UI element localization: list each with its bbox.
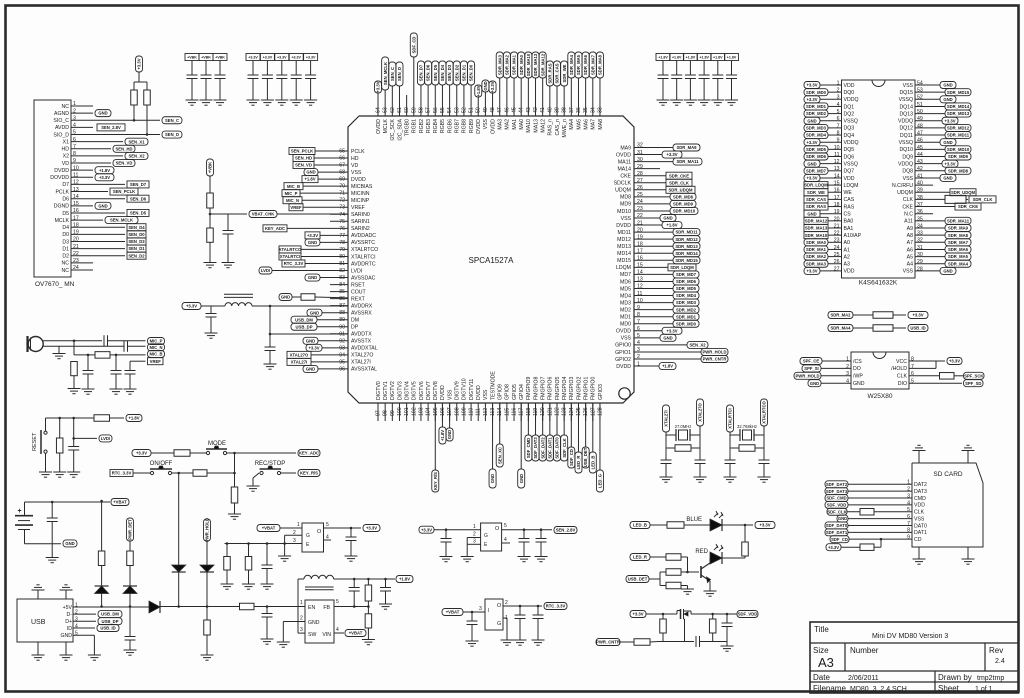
svg-text:A1: A1 (844, 247, 850, 253)
svg-text:A9: A9 (907, 226, 913, 232)
svg-text:DVDD: DVDD (351, 177, 366, 183)
svg-text:CLK: CLK (914, 510, 925, 516)
svg-text:RTC_3.3V: RTC_3.3V (112, 471, 132, 476)
svg-text:MIC_P: MIC_P (150, 339, 163, 344)
svg-text:MD1: MD1 (620, 315, 631, 321)
svg-text:DQ6: DQ6 (844, 154, 855, 160)
svg-text:DVDD: DVDD (616, 364, 631, 370)
svg-text:DIGTV2: DIGTV2 (390, 381, 396, 400)
svg-text:DQ2: DQ2 (844, 111, 855, 117)
svg-text:1: 1 (300, 600, 303, 606)
svg-text:CD: CD (914, 537, 922, 543)
svg-text:SDR_MD0: SDR_MD0 (676, 321, 697, 326)
svg-text:AVDDRTC: AVDDRTC (351, 261, 376, 267)
svg-text:3: 3 (846, 371, 849, 377)
svg-text:DIGTV3: DIGTV3 (397, 381, 403, 400)
svg-text:SDR_MA2: SDR_MA2 (504, 54, 509, 75)
svg-text:SDR_LDQM: SDR_LDQM (804, 183, 828, 188)
svg-text:SEN_X2: SEN_X2 (689, 343, 706, 348)
svg-text:A7: A7 (907, 240, 913, 246)
svg-text:HD: HD (62, 147, 70, 153)
svg-text:VBAT_CHK: VBAT_CHK (252, 212, 275, 217)
svg-text:SDR_WE: SDR_WE (562, 64, 567, 82)
svg-text:SEN_D2: SEN_D2 (454, 64, 459, 81)
svg-text:+3.3V: +3.3V (421, 527, 432, 532)
svg-text:GND: GND (310, 310, 319, 315)
svg-text:D3: D3 (62, 239, 69, 245)
svg-text:+3.3V: +3.3V (263, 56, 273, 60)
svg-text:MD15: MD15 (617, 258, 631, 264)
svg-text:FMGPIO7: FMGPIO7 (540, 377, 546, 400)
svg-text:GND: GND (98, 111, 107, 116)
svg-text:LVDI: LVDI (351, 268, 362, 274)
svg-text:SEN_D7: SEN_D7 (419, 64, 424, 81)
svg-text:48: 48 (917, 123, 923, 129)
svg-text:2: 2 (293, 530, 296, 536)
svg-text:SEN_C: SEN_C (390, 67, 395, 81)
svg-text:FMGPIO5: FMGPIO5 (555, 377, 561, 400)
svg-text:SDR_UDQM: SDR_UDQM (669, 187, 693, 192)
svg-text:GND: GND (943, 176, 952, 181)
svg-text:MA3: MA3 (498, 119, 504, 130)
svg-text:DQ9: DQ9 (902, 154, 913, 160)
svg-text:DAT1: DAT1 (914, 530, 927, 536)
svg-text:Drawn by: Drawn by (938, 673, 972, 682)
svg-text:I2C_SDA: I2C_SDA (397, 118, 403, 140)
svg-text:3: 3 (473, 539, 476, 545)
svg-text:SDR_MA9: SDR_MA9 (948, 226, 969, 231)
svg-text:WE: WE (844, 190, 853, 196)
svg-text:AVDDRX: AVDDRX (351, 303, 373, 309)
svg-text:FMGPIO1: FMGPIO1 (583, 377, 589, 400)
svg-text:N.C: N.C (904, 212, 913, 218)
svg-text:SDR_RAS: SDR_RAS (547, 63, 552, 83)
svg-text:4: 4 (336, 627, 339, 633)
svg-text:G: G (497, 621, 501, 627)
svg-text:SDR_MA8: SDR_MA8 (948, 233, 969, 238)
svg-text:DIGTV6: DIGTV6 (419, 381, 425, 400)
svg-text:SDF_DAT3: SDF_DAT3 (533, 437, 538, 459)
svg-text:XTALRTCI: XTALRTCI (351, 254, 376, 260)
svg-text:SEN_HD: SEN_HD (295, 156, 312, 161)
svg-text:4: 4 (504, 537, 507, 543)
svg-text:MA5: MA5 (576, 119, 582, 130)
svg-text:DAT0: DAT0 (914, 523, 927, 529)
svg-text:GPIO1: GPIO1 (615, 350, 631, 356)
svg-text:DIGTV7: DIGTV7 (426, 381, 432, 400)
svg-text:CKE: CKE (620, 174, 631, 180)
svg-text:SDR_MD8: SDR_MD8 (673, 194, 694, 199)
svg-text:KEY_R/S: KEY_R/S (300, 471, 318, 476)
svg-text:Mini DV MD80 Version 3: Mini DV MD80 Version 3 (872, 633, 948, 640)
svg-text:2/06/2011: 2/06/2011 (848, 675, 879, 682)
svg-text:XTALRTCO: XTALRTCO (762, 401, 767, 424)
svg-text:CAS_n: CAS_n (555, 119, 561, 136)
svg-text:+3.3V: +3.3V (291, 56, 301, 60)
svg-text:MD6: MD6 (620, 279, 631, 285)
svg-text:LDQM: LDQM (616, 265, 631, 271)
svg-text:DQ14: DQ14 (899, 104, 913, 110)
svg-text:TRGB0: TRGB0 (404, 119, 410, 136)
svg-text:MA11: MA11 (618, 159, 631, 165)
svg-text:+VBAT: +VBAT (349, 631, 363, 636)
svg-text:SEN_D4: SEN_D4 (128, 225, 145, 230)
svg-text:SW: SW (308, 632, 316, 638)
svg-text:TESTMODE: TESTMODE (490, 371, 496, 400)
svg-text:GND: GND (308, 275, 317, 280)
svg-text:SDF_DAT3: SDF_DAT3 (826, 489, 848, 494)
svg-text:OVDD: OVDD (616, 152, 631, 158)
svg-text:LDQM: LDQM (844, 183, 859, 189)
svg-text:D0: D0 (62, 232, 69, 238)
svg-text:W25X80: W25X80 (868, 393, 893, 400)
svg-text:DQ11: DQ11 (900, 133, 913, 139)
svg-text:SPF_SD: SPF_SD (965, 381, 981, 386)
svg-text:SEN_2.8V: SEN_2.8V (101, 125, 121, 130)
svg-text:GND: GND (663, 335, 672, 340)
svg-text:LED_R: LED_R (633, 555, 647, 560)
svg-text:MIC_N: MIC_N (149, 345, 162, 350)
svg-text:SDR_UDQM: SDR_UDQM (951, 190, 975, 195)
svg-text:DO: DO (853, 366, 861, 372)
svg-text:GND: GND (838, 516, 847, 521)
svg-text:A4: A4 (907, 262, 913, 268)
svg-text:+3.3V: +3.3V (366, 526, 377, 531)
svg-text:CS: CS (844, 212, 852, 218)
svg-text:SDR_MA5: SDR_MA5 (948, 254, 969, 259)
svg-text:GPIO2: GPIO2 (615, 357, 631, 363)
svg-text:MD7: MD7 (620, 272, 631, 278)
svg-text:A3: A3 (818, 655, 834, 670)
svg-text:Filename: Filename (813, 684, 846, 693)
svg-text:SDR_CAS: SDR_CAS (555, 63, 560, 83)
svg-text:7: 7 (837, 123, 840, 129)
svg-text:MD13: MD13 (617, 244, 631, 250)
svg-text:DQ3: DQ3 (844, 126, 855, 132)
svg-text:AVSSRTC: AVSSRTC (351, 240, 375, 246)
svg-text:GND: GND (943, 97, 952, 102)
svg-text:USB_DP: USB_DP (102, 619, 119, 624)
svg-text:O: O (317, 529, 322, 535)
svg-text:+3.3V: +3.3V (99, 175, 110, 180)
svg-text:SDF_DAT2: SDF_DAT2 (540, 437, 545, 459)
svg-text:SDR_MD9: SDR_MD9 (673, 202, 694, 207)
svg-text:DAT3: DAT3 (914, 489, 927, 495)
svg-text:DVDD: DVDD (476, 119, 482, 134)
svg-text:SDR_MA11: SDR_MA11 (676, 159, 699, 164)
svg-text:SDR_MD12: SDR_MD12 (947, 126, 970, 131)
svg-text:AVDDADC: AVDDADC (351, 233, 376, 239)
svg-text:+VBAT: +VBAT (113, 500, 127, 505)
svg-text:MIC_P: MIC_P (285, 191, 298, 196)
svg-text:GND: GND (447, 430, 452, 439)
svg-text:LED_R: LED_R (576, 456, 581, 470)
svg-text:SDF_DAT2: SDF_DAT2 (826, 482, 848, 487)
svg-text:SDR_MA3: SDR_MA3 (497, 54, 502, 75)
svg-text:+1.8V: +1.8V (699, 56, 709, 60)
svg-text:+3.3V: +3.3V (759, 523, 770, 528)
svg-text:SDR_MD11: SDR_MD11 (675, 230, 698, 235)
svg-text:AGND: AGND (54, 111, 69, 117)
svg-text:USB_DET: USB_DET (628, 577, 648, 582)
svg-text:KEY_R/S: KEY_R/S (433, 472, 438, 490)
svg-text:DIGTV8: DIGTV8 (433, 381, 439, 400)
svg-text:VDDQ: VDDQ (844, 140, 859, 146)
svg-text:MA0: MA0 (519, 119, 525, 130)
svg-text:G: G (484, 533, 488, 539)
svg-text:D7: D7 (62, 182, 69, 188)
svg-text:MD0: MD0 (620, 322, 631, 328)
svg-text:4: 4 (75, 624, 78, 630)
svg-text:SDF_CMD: SDF_CMD (526, 438, 531, 458)
svg-text:COUT: COUT (351, 289, 367, 295)
svg-text:+1.8V: +1.8V (304, 177, 315, 182)
svg-text:VD: VD (62, 161, 69, 167)
svg-text:DIGTV0: DIGTV0 (376, 381, 382, 400)
svg-text:RTC_3.3V: RTC_3.3V (546, 604, 566, 609)
svg-text:+3.3V: +3.3V (248, 56, 258, 60)
svg-text:SDR_MA10: SDR_MA10 (526, 53, 531, 76)
svg-text:AVSSXTAL: AVSSXTAL (351, 367, 377, 373)
svg-text:1 of 1: 1 of 1 (975, 686, 993, 693)
svg-text:SDR_MD15: SDR_MD15 (947, 90, 970, 95)
svg-text:VIN: VIN (322, 632, 331, 638)
svg-text:+3.3V: +3.3V (490, 81, 495, 92)
svg-text:MA13: MA13 (533, 119, 539, 133)
svg-text:+3.3V: +3.3V (137, 58, 142, 69)
svg-text:SDR_MD0: SDR_MD0 (806, 90, 827, 95)
svg-text:MA7: MA7 (591, 119, 597, 130)
svg-text:MA1: MA1 (512, 119, 518, 130)
svg-text:MA14: MA14 (617, 166, 631, 172)
svg-text:PWR_HOLD: PWR_HOLD (703, 350, 727, 355)
svg-text:DQ13: DQ13 (899, 111, 913, 117)
svg-text:SDR_MA6: SDR_MA6 (948, 247, 969, 252)
svg-text:2: 2 (300, 616, 303, 622)
svg-text:SEN_HD: SEN_HD (116, 146, 133, 151)
svg-text:PWR_CNTR: PWR_CNTR (703, 357, 727, 362)
svg-text:VSS: VSS (351, 170, 362, 176)
svg-text:+3.3V: +3.3V (949, 359, 960, 364)
svg-text:AVSSRX: AVSSRX (351, 310, 372, 316)
svg-text:GND: GND (853, 381, 865, 387)
svg-text:GND: GND (943, 83, 952, 88)
svg-text:MA8: MA8 (598, 119, 604, 130)
svg-text:SDR_MA1: SDR_MA1 (512, 54, 517, 75)
svg-text:+VBK: +VBK (187, 56, 197, 60)
svg-text:SEN_D5: SEN_D5 (130, 211, 147, 216)
svg-text:XTAL27I: XTAL27I (664, 410, 669, 426)
svg-text:DQ10: DQ10 (899, 147, 913, 153)
svg-text:LED_G: LED_G (598, 474, 603, 488)
svg-text:SPF_CE: SPF_CE (803, 359, 819, 364)
svg-text:SEN_D: SEN_D (397, 67, 402, 81)
svg-text:VSS: VSS (621, 336, 632, 342)
svg-text:SDR_MA4: SDR_MA4 (830, 326, 851, 331)
svg-text:RGB6: RGB6 (447, 119, 453, 133)
svg-text:Title: Title (814, 625, 829, 634)
svg-text:MA10: MA10 (526, 119, 532, 133)
svg-text:41: 41 (917, 173, 923, 179)
svg-text:+5V: +5V (63, 605, 73, 611)
svg-text:SDF_VDD: SDF_VDD (827, 502, 847, 507)
svg-text:SDR_MD10: SDR_MD10 (673, 209, 696, 214)
svg-text:SEN_D6: SEN_D6 (130, 196, 147, 201)
svg-text:+VBAT: +VBAT (262, 526, 276, 531)
svg-text:FMGPIO8: FMGPIO8 (533, 377, 539, 400)
svg-text:+1.8V: +1.8V (440, 430, 445, 441)
svg-text:AVSSTX: AVSSTX (351, 339, 372, 345)
svg-text:+3.3V: +3.3V (828, 545, 839, 550)
svg-text:FMGPIO3: FMGPIO3 (569, 377, 575, 400)
svg-text:MIC_N: MIC_N (286, 198, 299, 203)
svg-text:14: 14 (834, 173, 840, 179)
svg-text:GND: GND (60, 633, 72, 639)
svg-text:A11: A11 (904, 219, 913, 225)
svg-text:DQ15: DQ15 (899, 90, 913, 96)
svg-text:+3.3V: +3.3V (806, 97, 817, 102)
svg-text:REC/STOP: REC/STOP (255, 461, 286, 467)
svg-text:SDR_MD6: SDR_MD6 (806, 154, 827, 159)
svg-text:MICBIAS: MICBIAS (351, 184, 373, 190)
svg-text:SDF_CD: SDF_CD (831, 537, 848, 542)
svg-text:RGB3: RGB3 (426, 119, 432, 133)
svg-text:MA4: MA4 (569, 119, 575, 130)
svg-text:VDDQ: VDDQ (844, 97, 859, 103)
svg-text:SDF_CLK: SDF_CLK (827, 509, 846, 514)
svg-text:1: 1 (297, 522, 300, 528)
svg-text:SPF_SCK: SPF_SCK (964, 373, 983, 378)
svg-text:USB: USB (31, 619, 46, 626)
svg-text:SDR_MA13: SDR_MA13 (805, 226, 828, 231)
svg-text:+3.3V: +3.3V (912, 313, 923, 318)
svg-text:GND: GND (308, 620, 320, 626)
svg-text:DVDD: DVDD (440, 385, 446, 400)
svg-text:+1.8V: +1.8V (666, 223, 677, 228)
svg-text:GND: GND (943, 140, 952, 145)
svg-text:3: 3 (293, 538, 296, 544)
svg-text:SARIN1: SARIN1 (351, 219, 370, 225)
svg-text:DIGTV11: DIGTV11 (469, 379, 475, 400)
svg-text:RAS_n: RAS_n (548, 119, 554, 136)
svg-text:XTAL27O: XTAL27O (290, 352, 309, 357)
svg-text:XTALRTCI: XTALRTCI (728, 408, 733, 428)
svg-text:XTALRTCI: XTALRTCI (280, 254, 300, 259)
svg-text:BA0: BA0 (844, 219, 854, 225)
svg-text:GND: GND (807, 118, 816, 123)
svg-text:MICINP: MICINP (351, 198, 370, 204)
svg-text:Rev: Rev (989, 646, 1003, 655)
svg-text:SDR_MA13: SDR_MA13 (533, 53, 538, 76)
svg-text:MD3: MD3 (620, 300, 631, 306)
svg-text:+3.3V: +3.3V (666, 328, 677, 333)
svg-text:SEN_D0: SEN_D0 (128, 232, 145, 237)
svg-text:SEN_D7: SEN_D7 (130, 182, 147, 187)
svg-text:5: 5 (326, 522, 329, 528)
svg-text:SPF_SI: SPF_SI (804, 366, 818, 371)
svg-text:BLUE: BLUE (686, 517, 702, 523)
svg-text:Number: Number (850, 646, 879, 655)
svg-text:SDF_VDD: SDF_VDD (738, 612, 758, 617)
svg-text:DM: DM (351, 318, 359, 324)
svg-text:+3.3V: +3.3V (307, 233, 318, 238)
svg-text:SDR_MD15: SDR_MD15 (675, 258, 698, 263)
svg-text:+VBK: +VBK (208, 162, 213, 173)
svg-text:SEN_D1: SEN_D1 (462, 64, 467, 81)
svg-text:GPIO0: GPIO0 (615, 343, 631, 349)
svg-text:O: O (497, 603, 502, 609)
svg-text:O: O (495, 526, 500, 532)
svg-text:+VBAT: +VBAT (446, 610, 460, 615)
svg-text:XTAL27O: XTAL27O (351, 353, 373, 359)
svg-text:VREF: VREF (150, 359, 162, 364)
svg-text:GPIO9: GPIO9 (498, 384, 504, 400)
svg-text:SDR_CKE: SDR_CKE (958, 204, 978, 209)
svg-text:+3.3V: +3.3V (806, 140, 817, 145)
svg-text:SDR_MA4: SDR_MA4 (569, 54, 574, 75)
svg-text:CMD: CMD (914, 496, 926, 502)
svg-text:VDDQ: VDDQ (898, 161, 913, 167)
svg-text:32.768kHz: 32.768kHz (737, 424, 757, 429)
svg-text:A6: A6 (907, 247, 913, 253)
svg-text:MCLK: MCLK (55, 218, 70, 224)
svg-text:+3.3V: +3.3V (944, 161, 955, 166)
svg-text:MD5: MD5 (620, 286, 631, 292)
svg-text:A5: A5 (907, 254, 913, 260)
svg-text:D5: D5 (62, 211, 69, 217)
svg-text:SDR_MA7: SDR_MA7 (590, 54, 595, 75)
svg-text:DIGTV4: DIGTV4 (404, 381, 410, 400)
svg-text:4: 4 (326, 535, 329, 541)
svg-text:GND: GND (519, 474, 524, 483)
svg-text:MD9: MD9 (620, 202, 631, 208)
svg-text:VREF: VREF (351, 205, 365, 211)
svg-text:DQ8: DQ8 (902, 169, 913, 175)
svg-text:22: 22 (834, 231, 840, 237)
svg-text:SDR_MA1: SDR_MA1 (806, 247, 827, 252)
svg-text:SDR_MD5: SDR_MD5 (676, 286, 697, 291)
svg-text:+3.3V: +3.3V (806, 176, 817, 181)
svg-text:SDR_CLK: SDR_CLK (973, 197, 993, 202)
svg-text:DQ5: DQ5 (844, 147, 855, 153)
svg-text:+3.3V: +3.3V (277, 56, 287, 60)
svg-text:SEN_PCLK: SEN_PCLK (113, 189, 135, 194)
svg-text:SDR_MD13: SDR_MD13 (947, 111, 970, 116)
svg-text:+3.3V: +3.3V (666, 152, 677, 157)
svg-text:VDDQ: VDDQ (898, 119, 913, 125)
svg-text:SDR_MA8: SDR_MA8 (598, 54, 603, 75)
svg-text:FMGPIO2: FMGPIO2 (576, 377, 582, 400)
svg-text:CLK: CLK (897, 374, 908, 380)
svg-text:SDR_RAS: SDR_RAS (806, 204, 826, 209)
svg-text:VSSQ: VSSQ (844, 161, 858, 167)
svg-text:SDR_MA9: SDR_MA9 (676, 145, 697, 150)
svg-text:A8: A8 (907, 233, 913, 239)
svg-text:D2: D2 (62, 254, 69, 260)
svg-text:SDR_MA0: SDR_MA0 (806, 240, 827, 245)
svg-text:19: 19 (834, 209, 840, 215)
svg-text:MICINN: MICINN (351, 191, 370, 197)
svg-text:SEN_C: SEN_C (165, 118, 179, 123)
svg-text:VDD: VDD (844, 176, 855, 182)
svg-text:PCLK: PCLK (351, 149, 365, 155)
svg-text:36: 36 (917, 209, 923, 215)
svg-text:DQ7: DQ7 (844, 169, 855, 175)
svg-text:33: 33 (917, 231, 923, 237)
svg-text:LED_B: LED_B (633, 523, 647, 528)
svg-text:GPIO3: GPIO3 (598, 384, 604, 400)
svg-text:46: 46 (917, 138, 923, 144)
